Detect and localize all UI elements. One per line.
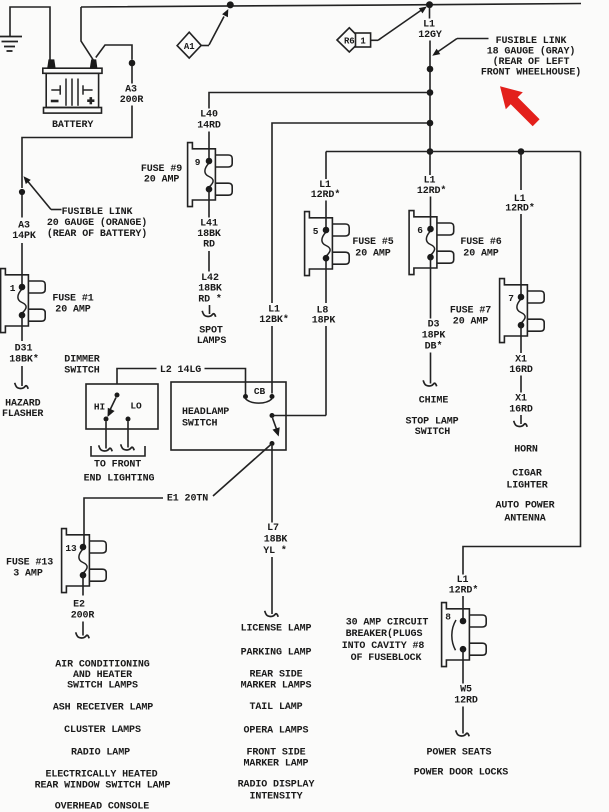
wires dimmer to front end lighting — [105, 422, 107, 449]
red arrow callout — [500, 86, 540, 126]
svg-text:20 AMP: 20 AMP — [144, 174, 180, 185]
connector to horn — [514, 421, 528, 427]
svg-text:AIR CONDITIONING: AIR CONDITIONING — [55, 660, 150, 671]
wire X1 16RD to horn — [520, 325, 522, 353]
svg-text:D3: D3 — [428, 320, 440, 331]
dimmer switch box — [86, 384, 158, 429]
svg-text:ASH RECEIVER LAMP: ASH RECEIVER LAMP — [53, 703, 153, 714]
svg-text:POWER DOOR LOCKS: POWER DOOR LOCKS — [414, 768, 509, 779]
svg-text:1: 1 — [10, 283, 16, 294]
svg-text:FUSE #6: FUSE #6 — [460, 237, 501, 248]
svg-text:SWITCH: SWITCH — [182, 418, 218, 429]
battery — [43, 68, 102, 73]
fusible link gray note pointer — [457, 38, 489, 40]
svg-text:FUSE #5: FUSE #5 — [352, 237, 393, 248]
svg-text:INTENSITY: INTENSITY — [249, 792, 302, 803]
svg-text:FUSIBLE LINK: FUSIBLE LINK — [496, 36, 567, 47]
svg-text:REAR SIDE: REAR SIDE — [249, 670, 302, 681]
svg-text:HORN: HORN — [514, 445, 538, 456]
svg-text:BATTERY: BATTERY — [52, 120, 93, 131]
svg-text:L42: L42 — [201, 273, 219, 284]
svg-text:(REAR OF BATTERY): (REAR OF BATTERY) — [47, 228, 147, 240]
svg-text:AUTO POWER: AUTO POWER — [495, 501, 554, 512]
svg-text:STOP LAMP: STOP LAMP — [405, 417, 458, 428]
wire A3 to fuse 1 — [21, 243, 23, 287]
wire battery positive feeds — [81, 7, 93, 60]
svg-text:SWITCH LAMPS: SWITCH LAMPS — [67, 681, 138, 692]
fuse F13 — [62, 529, 90, 593]
svg-text:END LIGHTING: END LIGHTING — [84, 474, 155, 485]
ground — [10, 7, 50, 60]
svg-text:L41: L41 — [200, 219, 218, 230]
svg-text:12RD*: 12RD* — [311, 189, 341, 201]
circuit breaker CB8 30A — [442, 603, 470, 667]
svg-text:CB: CB — [254, 386, 266, 397]
svg-text:20 AMP: 20 AMP — [463, 248, 499, 259]
svg-text:DB*: DB* — [425, 341, 443, 353]
node splices on L1 — [427, 66, 434, 73]
connector to AC lamps — [76, 632, 90, 638]
svg-text:HI: HI — [94, 402, 105, 413]
connector to power seats — [456, 730, 470, 736]
svg-text:SWITCH: SWITCH — [415, 427, 451, 438]
svg-text:A1: A1 — [184, 42, 195, 52]
svg-text:14RD: 14RD — [197, 120, 221, 131]
wire E2 200R — [82, 574, 84, 596]
svg-text:POWER SEATS: POWER SEATS — [427, 748, 492, 759]
svg-text:6: 6 — [417, 225, 423, 236]
svg-text:FUSE #13: FUSE #13 — [6, 558, 53, 569]
svg-text:E2: E2 — [73, 600, 85, 611]
svg-text:REAR WINDOW SWITCH LAMP: REAR WINDOW SWITCH LAMP — [35, 781, 171, 792]
svg-text:RD: RD — [203, 240, 215, 251]
fuse F6 — [409, 211, 437, 275]
wire L7 18BK YL* — [271, 446, 273, 523]
svg-text:OPERA LAMPS: OPERA LAMPS — [244, 726, 309, 737]
wire L1 12GY main feed — [429, 7, 431, 19]
connector to chime — [423, 380, 437, 386]
svg-text:FUSIBLE LINK: FUSIBLE LINK — [62, 207, 133, 218]
svg-text:8: 8 — [445, 611, 451, 622]
wire E1 20TN — [213, 444, 272, 497]
svg-text:L1: L1 — [268, 305, 280, 316]
wire A3 200R down-left — [131, 66, 133, 84]
svg-text:DIMMER: DIMMER — [64, 355, 100, 366]
svg-text:12RD: 12RD — [454, 696, 478, 707]
wire to fuse 5 — [325, 152, 327, 180]
fuse F9 — [188, 143, 216, 207]
svg-text:30 AMP CIRCUIT: 30 AMP CIRCUIT — [346, 618, 429, 629]
svg-text:16RD: 16RD — [509, 405, 533, 416]
fusible link orange note pointer — [51, 209, 62, 211]
svg-text:YL *: YL * — [263, 545, 287, 557]
wire L2 14LG dimmer to headlamp switch — [117, 369, 157, 385]
svg-text:SPOT: SPOT — [199, 326, 223, 337]
svg-text:HEADLAMP: HEADLAMP — [182, 407, 229, 418]
wire W5 12RD — [462, 649, 464, 684]
connector to hazard flasher — [15, 383, 29, 389]
svg-text:14PK: 14PK — [12, 231, 36, 242]
svg-text:R6: R6 — [344, 36, 355, 46]
wire to fuse 7 — [520, 152, 522, 191]
svg-text:L40: L40 — [200, 110, 218, 121]
svg-text:12GY: 12GY — [418, 30, 442, 41]
wire D31 18BK* — [21, 315, 23, 341]
svg-text:16RD: 16RD — [509, 365, 533, 376]
svg-text:(REAR OF LEFT: (REAR OF LEFT — [493, 56, 570, 68]
svg-text:CHIME: CHIME — [419, 396, 449, 407]
svg-text:INTO CAVITY #8: INTO CAVITY #8 — [342, 641, 425, 652]
svg-text:D31: D31 — [15, 344, 33, 355]
svg-text:L7: L7 — [267, 523, 279, 534]
svg-text:RADIO DISPLAY: RADIO DISPLAY — [238, 780, 315, 791]
svg-text:LICENSE LAMP: LICENSE LAMP — [241, 624, 312, 635]
svg-text:A3: A3 — [18, 221, 30, 232]
svg-text:5: 5 — [313, 226, 319, 237]
svg-text:LIGHTER: LIGHTER — [506, 481, 547, 492]
svg-text:X1: X1 — [515, 355, 527, 366]
svg-text:OVERHEAD CONSOLE: OVERHEAD CONSOLE — [55, 802, 150, 812]
svg-text:200R: 200R — [71, 611, 95, 622]
svg-text:7: 7 — [508, 293, 514, 304]
svg-text:BREAKER(PLUGS: BREAKER(PLUGS — [346, 628, 423, 640]
svg-text:AND HEATER: AND HEATER — [73, 670, 132, 681]
svg-text:18BK: 18BK — [264, 535, 288, 546]
relay R6 with terminal 1 — [337, 28, 362, 52]
dimmer switch contacts — [115, 393, 120, 398]
svg-text:ANTENNA: ANTENNA — [504, 514, 545, 525]
wire L40 14RD to fuse 9 — [209, 93, 430, 109]
svg-text:12RD*: 12RD* — [417, 185, 447, 197]
svg-text:MARKER LAMPS: MARKER LAMPS — [241, 681, 312, 692]
svg-text:PARKING LAMP: PARKING LAMP — [241, 648, 312, 659]
svg-text:CLUSTER LAMPS: CLUSTER LAMPS — [64, 725, 141, 736]
svg-text:18 GAUGE (GRAY): 18 GAUGE (GRAY) — [487, 46, 576, 58]
svg-text:L2 14LG: L2 14LG — [160, 365, 201, 376]
wire distribution bus y151 — [326, 151, 581, 153]
svg-text:MARKER LAMP: MARKER LAMP — [244, 759, 309, 770]
svg-text:E1 20TN: E1 20TN — [167, 494, 208, 505]
svg-text:CIGAR: CIGAR — [512, 469, 542, 480]
svg-text:OF FUSEBLOCK: OF FUSEBLOCK — [351, 653, 422, 664]
svg-text:W5: W5 — [460, 685, 472, 696]
node L1 12GY junction — [426, 1, 433, 8]
svg-text:18BK*: 18BK* — [9, 354, 39, 366]
svg-text:18PK: 18PK — [422, 331, 446, 342]
svg-text:12RD*: 12RD* — [505, 203, 535, 215]
node battery feed junction — [227, 1, 234, 8]
svg-text:LO: LO — [130, 401, 142, 412]
svg-text:SWITCH: SWITCH — [64, 366, 100, 377]
svg-text:FUSE #7: FUSE #7 — [450, 305, 491, 316]
svg-text:RADIO LAMP: RADIO LAMP — [71, 748, 130, 759]
connector to spot lamps — [202, 311, 216, 317]
svg-text:20 AMP: 20 AMP — [453, 317, 489, 328]
svg-text:20 AMP: 20 AMP — [355, 248, 391, 259]
fuse F7 — [500, 279, 528, 343]
wire right branch to circuit breaker — [463, 152, 581, 575]
svg-text:12BK*: 12BK* — [259, 314, 289, 326]
svg-text:1: 1 — [360, 36, 366, 46]
svg-text:18BK: 18BK — [198, 284, 222, 295]
svg-text:20 AMP: 20 AMP — [55, 305, 91, 316]
svg-text:L1: L1 — [457, 575, 469, 586]
fuse F1 — [1, 269, 29, 333]
wire D3 18PK DB* to chime — [430, 257, 432, 318]
connector A1 — [177, 32, 201, 58]
node splice A3 200R — [129, 60, 136, 67]
svg-text:20 GAUGE (ORANGE): 20 GAUGE (ORANGE) — [47, 217, 147, 229]
svg-text:RD *: RD * — [198, 294, 222, 306]
wire headlamp switch to L8 18PK — [272, 415, 326, 417]
connector to lamps — [265, 611, 279, 617]
wire L1 12BK* headlamp switch to fuseblock — [271, 326, 273, 394]
headlamp switch box — [171, 382, 286, 450]
svg-text:200R: 200R — [120, 95, 144, 106]
svg-text:13: 13 — [65, 543, 77, 554]
svg-text:TAIL LAMP: TAIL LAMP — [249, 702, 302, 713]
svg-text:18PK: 18PK — [312, 316, 336, 327]
svg-text:3 AMP: 3 AMP — [13, 568, 43, 579]
wire L41 18BK RD — [208, 189, 210, 218]
svg-text:FRONT SIDE: FRONT SIDE — [246, 748, 305, 759]
svg-text:FUSE #1: FUSE #1 — [52, 294, 93, 305]
headlamp switch contact and arm — [270, 413, 275, 418]
svg-text:12RD*: 12RD* — [449, 585, 479, 597]
fuse F5 — [305, 212, 333, 276]
svg-text:X1: X1 — [515, 394, 527, 405]
svg-text:TO FRONT: TO FRONT — [94, 460, 141, 471]
svg-text:9: 9 — [195, 157, 201, 168]
svg-text:FLASHER: FLASHER — [2, 409, 43, 420]
svg-text:ELECTRICALLY HEATED: ELECTRICALLY HEATED — [45, 770, 157, 781]
svg-text:LAMPS: LAMPS — [197, 336, 227, 347]
svg-text:FRONT WHEELHOUSE): FRONT WHEELHOUSE) — [481, 67, 581, 79]
wire top horizontal — [81, 4, 581, 8]
svg-text:18BK: 18BK — [197, 229, 221, 240]
node A3 junction — [19, 189, 25, 195]
